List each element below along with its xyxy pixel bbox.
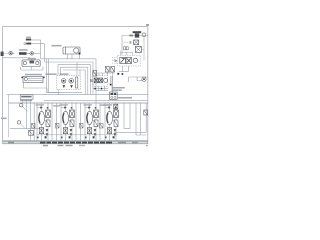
fan loop top <box>129 77 148 82</box>
triangles TC <box>94 129 97 136</box>
center valve lower wires <box>93 86 108 90</box>
cooler block <box>23 76 43 82</box>
control box marks <box>111 93 113 95</box>
pump P1 arrow <box>63 80 65 82</box>
inner boundary vertical <box>8 95 10 137</box>
wires group3 <box>81 103 101 141</box>
stacked valve box E <box>114 104 118 109</box>
valve X V-C <box>94 110 99 118</box>
footer text mid <box>58 145 64 146</box>
pump feed vertical b <box>79 70 81 75</box>
junction dot J2 <box>94 88 95 89</box>
group label B <box>60 104 69 105</box>
pipe corner outer <box>40 40 42 59</box>
right loop valve mark <box>144 110 148 115</box>
band mark C2 <box>85 137 87 139</box>
bottom mid small text <box>53 105 60 106</box>
main pump text <box>19 52 27 55</box>
pump drain triangle 2 <box>70 85 73 88</box>
left check mark C <box>80 123 83 128</box>
triangles TB <box>70 129 73 136</box>
valve box V-C <box>94 110 99 118</box>
title band text <box>8 142 138 144</box>
band mark D2 <box>105 137 107 139</box>
junction dot J4 <box>117 73 119 75</box>
lower box mark B <box>63 128 67 134</box>
pump P2 circle <box>69 79 74 84</box>
port mark B2 <box>71 107 73 109</box>
left check mark D <box>100 123 103 128</box>
valve box V-B <box>70 110 75 118</box>
mid collector wire <box>37 134 118 136</box>
top right drop wire <box>121 36 123 55</box>
wire gauge to corner <box>34 52 41 54</box>
sub box mark C <box>94 120 98 127</box>
footer text left <box>43 145 48 147</box>
junction dot J5 <box>122 73 124 75</box>
pump P2 arrow <box>70 80 72 82</box>
bus label text <box>118 97 132 99</box>
reservoir cap right <box>36 61 39 64</box>
right loop valve <box>144 110 148 115</box>
cooler label <box>25 74 42 76</box>
left low horizontal <box>10 128 40 130</box>
right loop wires <box>114 103 146 135</box>
relief valve RV2 <box>105 66 109 72</box>
accumulator label <box>52 45 62 47</box>
reservoir breather <box>30 61 35 64</box>
legend circle row 2 <box>24 43 26 45</box>
pilot dash stubs left <box>112 58 118 64</box>
motor crescent M-A <box>39 113 40 123</box>
lower box mark <box>39 128 43 134</box>
group label A <box>36 104 45 105</box>
engine pump label a <box>46 73 57 75</box>
pilot valve dashed box <box>118 55 140 66</box>
gauge tap circle 2 <box>17 121 20 124</box>
secondary bus line <box>44 100 148 102</box>
motor crescent M-B <box>63 113 64 123</box>
nested wire 5 <box>63 70 85 95</box>
pilot valve circle <box>133 58 137 62</box>
pilot wire right <box>141 37 144 61</box>
top jog D <box>105 107 111 109</box>
top jog C <box>85 107 91 109</box>
band mark B2 <box>61 137 63 139</box>
valve box V-A <box>46 110 51 118</box>
right label line 1 <box>112 87 125 89</box>
reservoir tank <box>22 60 40 67</box>
pump feed vertical a <box>76 63 78 76</box>
nested wire 2 <box>45 62 93 95</box>
valve V5 X <box>134 40 139 45</box>
center valve block dashed <box>93 76 108 86</box>
motor ellipse M-D <box>106 111 112 124</box>
pipe corner inner <box>44 44 46 62</box>
valve V5 leader dashes <box>124 42 129 44</box>
reservoir return U wire <box>21 67 43 71</box>
nested wire 1 <box>41 59 96 103</box>
reservoir cap left <box>23 61 26 64</box>
lower box LB-A <box>39 128 43 134</box>
pump P0 mark <box>10 53 12 54</box>
cooler port mark right <box>43 77 45 79</box>
sub box V-B2 <box>70 120 74 127</box>
left check box C <box>80 123 83 128</box>
relief valve RV3 wire <box>112 72 114 95</box>
border frame <box>3 27 148 142</box>
left check box B <box>56 123 59 128</box>
junction dot J6 <box>110 84 112 86</box>
wire dashed from M1 <box>4 53 9 55</box>
motor crescent M-C <box>87 113 88 123</box>
valve X V-B <box>70 110 75 118</box>
page number top right <box>146 24 149 26</box>
assembly group 4 <box>100 103 119 141</box>
valve V5 spring <box>129 41 131 43</box>
pilot valve square 1 <box>120 57 126 63</box>
relief valve RV3 spring <box>111 67 114 71</box>
assembly group 3 <box>80 103 100 141</box>
small comp pair b <box>126 47 128 50</box>
cylinder port A wire <box>66 54 68 59</box>
band mark A1 <box>45 136 47 138</box>
triangles TA <box>46 129 49 136</box>
right label line 2 <box>112 89 122 91</box>
lower box LB-C <box>87 128 91 134</box>
legend label row 0 <box>26 37 31 38</box>
port mark D2 <box>115 107 117 109</box>
relief valve RV3 <box>111 66 115 72</box>
group label D <box>104 104 113 105</box>
pump P1 circle <box>61 79 66 84</box>
footer text right <box>79 145 85 146</box>
inner boundary top bus <box>7 94 149 96</box>
assembly group 1 <box>32 103 52 141</box>
lower box mark D <box>107 128 111 134</box>
pilot valve bottom wires <box>119 66 129 72</box>
motor ellipse M-A <box>38 111 44 124</box>
left check box A <box>32 123 35 128</box>
top right bar <box>129 35 133 37</box>
lower box LB-D <box>107 128 111 134</box>
port mark D1 <box>108 107 110 109</box>
left edge tiny label <box>1 118 7 119</box>
left low comp <box>29 131 34 136</box>
left check mark B <box>56 123 59 128</box>
relief valve RV2 wire <box>106 72 108 76</box>
main bus line <box>9 102 148 104</box>
relief valve RV2 spring <box>106 67 109 71</box>
junction dot J3 <box>101 88 102 89</box>
top right circle <box>142 33 146 37</box>
cooler core lines <box>28 78 42 80</box>
cylinder CYL1 body <box>63 47 80 54</box>
band mark D1 <box>113 136 115 138</box>
leader wire row1 <box>31 39 40 41</box>
legend label row 1 <box>26 39 31 41</box>
port mark C2 <box>95 107 97 109</box>
cooler port mark left <box>21 77 23 79</box>
lower box mark C <box>87 128 91 134</box>
fan motor circle <box>142 77 146 81</box>
port mark B1 <box>64 107 66 109</box>
sub box V-C2 <box>94 120 98 127</box>
motor ellipse M-B <box>62 111 68 124</box>
group label C <box>84 104 93 105</box>
sub box mark <box>46 120 50 127</box>
left check box D <box>100 123 103 128</box>
left check mark A <box>32 123 35 128</box>
gauge tap 1 leader <box>22 106 27 111</box>
leader wire row2 <box>31 43 44 45</box>
junction dot J1 <box>79 53 81 55</box>
left subsystem box text <box>21 96 31 98</box>
sub box mark D <box>114 120 118 127</box>
cylinder piston line <box>65 47 67 54</box>
motor ellipse M-C <box>86 111 92 124</box>
title band <box>3 141 148 144</box>
port mark A1 <box>40 107 42 109</box>
solenoid valve SV1 <box>94 78 98 83</box>
center valve feeders <box>96 73 103 76</box>
cylinder gland circle <box>74 48 79 53</box>
right feeder verticals <box>110 76 112 92</box>
suction line <box>3 57 30 59</box>
pump suction verticals <box>47 59 49 93</box>
pump drain triangle 1 <box>63 85 66 88</box>
valve V5 box <box>134 40 139 45</box>
control box B1 <box>110 92 118 99</box>
motor crescent M-D <box>107 113 108 123</box>
wire pump to right <box>12 52 14 54</box>
gauge tap circle 1 <box>20 104 23 107</box>
pump unit dashed box <box>57 76 81 90</box>
relief valve RV1 <box>93 70 97 76</box>
assembly group 2 <box>56 103 76 141</box>
pilot valve spring left <box>114 60 116 62</box>
band mark A2 <box>37 137 39 139</box>
check valve CV1 <box>27 53 30 55</box>
valve X V-D <box>114 110 119 118</box>
bottom collector wire <box>3 140 148 142</box>
top right valve box <box>135 33 139 37</box>
sub box mark B <box>70 120 74 127</box>
triangles TD <box>114 129 117 136</box>
sub box V-D2 <box>114 120 118 127</box>
port mark A2 <box>47 107 49 109</box>
lower box LB-B <box>63 128 67 134</box>
main pump label <box>19 49 28 51</box>
center valve spring <box>90 79 93 81</box>
sub box V-A2 <box>46 120 50 127</box>
left low vertical pair <box>31 129 35 141</box>
valve X V-A <box>46 110 51 118</box>
wires group2 <box>57 103 77 141</box>
wire J1 down <box>78 54 80 58</box>
wires group4 <box>105 103 116 141</box>
control box circles <box>111 96 113 98</box>
nested wire 3 <box>58 65 90 95</box>
bottom gray text labels <box>100 104 109 105</box>
legend label row 2 <box>26 43 31 45</box>
band mark C1 <box>93 136 95 138</box>
small comp pair <box>124 47 126 50</box>
top jog B <box>61 107 67 109</box>
nested wire 4 <box>61 67 88 94</box>
top jog A <box>37 107 43 109</box>
cooler fan circle <box>24 77 27 80</box>
left label above bus <box>20 100 32 101</box>
motor M1 on left frame <box>1 52 4 56</box>
cooler drain step wire <box>23 83 58 93</box>
gauge tap 2 leader <box>20 124 25 129</box>
wires group1 <box>37 103 52 141</box>
valve V6 box <box>135 46 141 52</box>
fan motor dot <box>143 78 145 80</box>
solenoid valve SV2 <box>99 78 103 83</box>
engine pump label b <box>60 73 69 75</box>
left riser wires <box>22 99 34 128</box>
valve box V-D <box>114 110 119 118</box>
center valve circle <box>104 78 108 82</box>
stacked valve mark E <box>114 104 118 109</box>
pump lower wire <box>47 90 82 95</box>
pump shaft element <box>76 77 78 88</box>
band mark B1 <box>69 136 71 138</box>
center valve pilot bus <box>92 72 114 74</box>
port mark C1 <box>88 107 90 109</box>
left subsystem label box <box>20 95 33 99</box>
pilot valve square 2 <box>126 57 132 63</box>
valve V6 X <box>135 46 141 52</box>
relief valve RV1 mark <box>93 71 96 75</box>
top right wire main <box>122 35 148 37</box>
top right label <box>133 31 142 33</box>
gauge G1 mark <box>31 53 33 55</box>
gauge G1 circle <box>30 52 34 56</box>
left low comp mark <box>29 131 34 136</box>
pump P0 circle <box>9 52 12 55</box>
reservoir label <box>28 58 36 59</box>
cylinder port B wire <box>71 54 73 59</box>
pilot valve top feeders <box>121 51 133 55</box>
